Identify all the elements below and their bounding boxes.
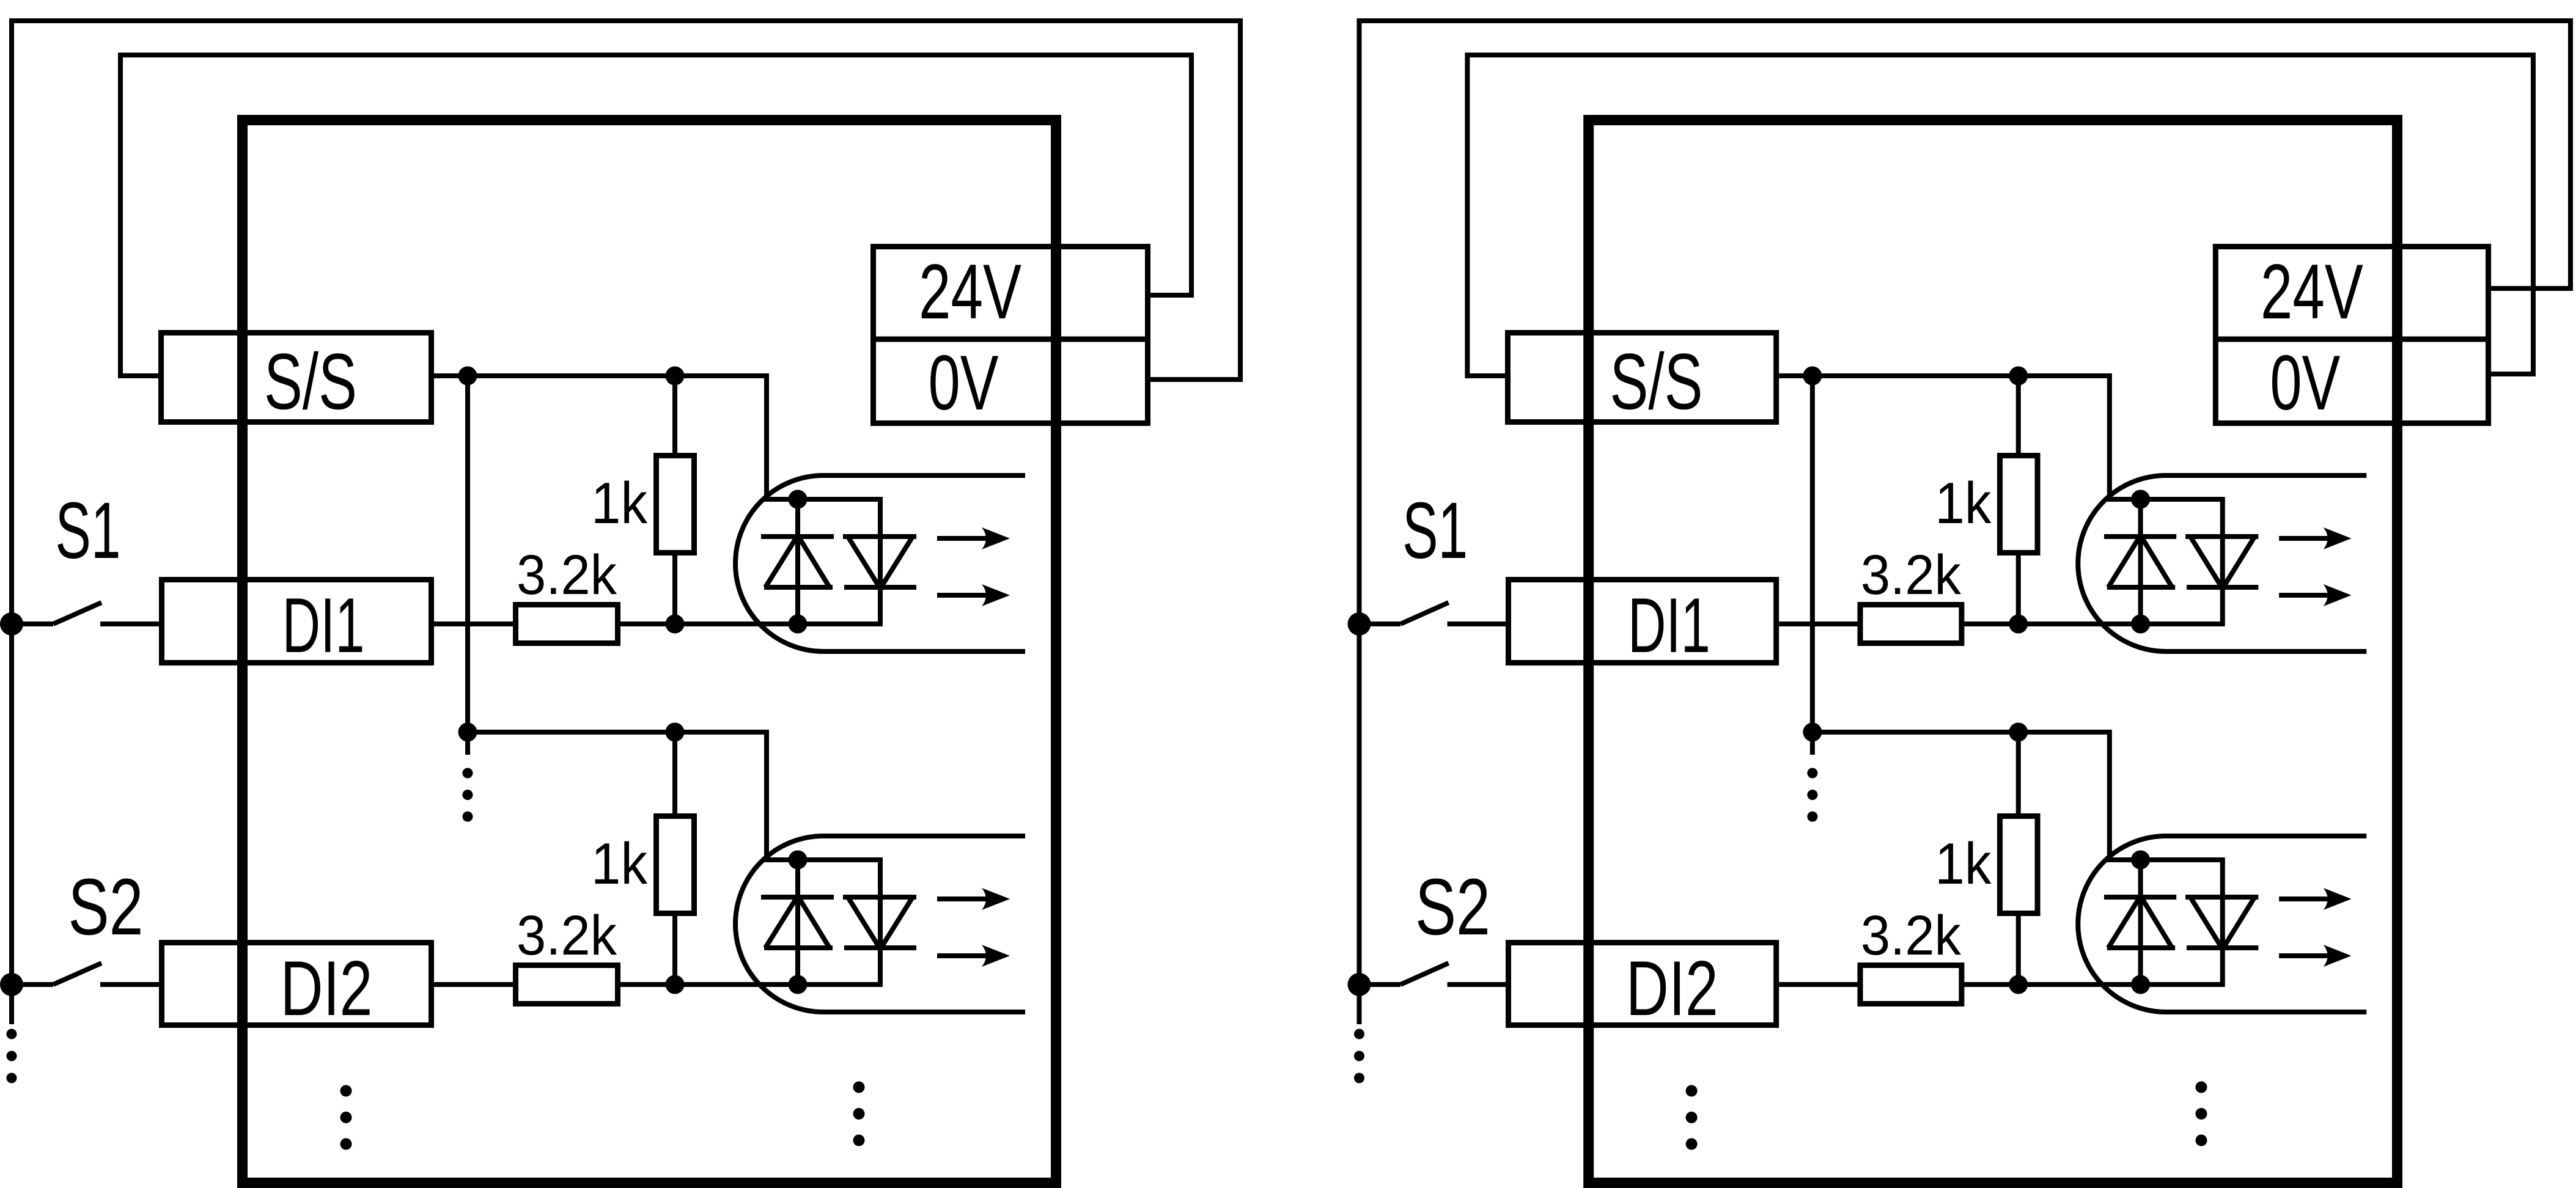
- resistor R1 1k: [657, 376, 694, 624]
- node: LED top pin: [2131, 851, 2150, 870]
- resistor R8 3.2k: [1860, 966, 1962, 1004]
- svg-text:S2: S2: [68, 862, 144, 952]
- node: switch common junction: [1348, 612, 1371, 636]
- light output arrow 2: [937, 953, 989, 958]
- node: rail junction to 1k: [2009, 367, 2028, 386]
- svg-text:DI2: DI2: [1626, 945, 1718, 1032]
- wire: S/S supply loop: [1467, 55, 2533, 376]
- wire: DI input line: [434, 621, 513, 626]
- resistor R2 3.2k: [516, 605, 618, 643]
- svg-text:DI1: DI1: [282, 582, 365, 669]
- node: switch common junction: [1348, 973, 1371, 996]
- wire: S/S drop to channel 2, stub below: [465, 376, 470, 755]
- svg-text:1k: 1k: [1935, 831, 1992, 897]
- resistor R7 1k: [2000, 732, 2038, 985]
- svg-text:S2: S2: [1415, 862, 1490, 952]
- resistor R6 3.2k: [1860, 605, 1962, 643]
- node: LED bottom pin: [2131, 975, 2150, 994]
- node: LED top pin: [789, 490, 808, 509]
- continuation dots below optocouplers: [2196, 1082, 2207, 1093]
- node: junction 1k/3.2k: [666, 615, 685, 634]
- node: LED bottom pin: [2131, 615, 2150, 634]
- resistor R5 1k: [2000, 376, 2038, 624]
- wire: DI input line after 3.2k: [1964, 621, 2140, 626]
- node: rail left junction: [458, 723, 477, 742]
- node: switch common junction: [0, 973, 23, 996]
- wire: S/S supply loop: [120, 55, 1191, 376]
- terminal block 24V/0V: [874, 247, 1148, 424]
- wire: switch-common supply loop: [1360, 21, 2571, 1024]
- terminal divider: [2215, 337, 2489, 342]
- LED D1b (conducts down): [843, 499, 916, 624]
- wire: DI input line: [1779, 982, 1857, 987]
- wire: DI input line after 3.2k: [1964, 982, 2140, 987]
- switch S1: [1360, 603, 1506, 624]
- light output arrow 1: [937, 897, 989, 901]
- wire: DI input line after 3.2k: [620, 621, 798, 626]
- switch S2: [1360, 963, 1506, 985]
- svg-text:3.2k: 3.2k: [517, 904, 617, 967]
- LED D4b (conducts down): [2185, 860, 2258, 985]
- wire: S/S distribution rail with drop to optocoupler: [1779, 376, 2110, 499]
- light output arrow 2: [2279, 593, 2331, 598]
- resistor R3 1k: [657, 732, 694, 985]
- svg-text:1k: 1k: [1935, 471, 1992, 536]
- light output arrow 1: [2279, 897, 2331, 901]
- continuation dots below switch common: [1354, 1029, 1364, 1039]
- light output arrow 1: [2279, 536, 2331, 541]
- svg-text:DI2: DI2: [281, 945, 373, 1032]
- LED D2a (conducts up): [761, 860, 834, 985]
- wire: LED bottom rail: [2141, 982, 2225, 987]
- node: LED bottom pin: [789, 615, 808, 634]
- wire: DI input line: [1779, 621, 1857, 626]
- continuation dots below switch common: [7, 1029, 17, 1039]
- svg-text:3.2k: 3.2k: [1861, 544, 1962, 606]
- resistor R4 3.2k: [516, 966, 618, 1004]
- wire: S/S distribution rail with drop to optocoupler: [468, 732, 767, 860]
- node: junction 1k/3.2k: [2009, 975, 2028, 994]
- LED D2b (conducts down): [843, 860, 916, 985]
- LED D4a (conducts up): [2104, 860, 2176, 985]
- svg-text:1k: 1k: [591, 471, 648, 536]
- wire: LED bottom rail: [2141, 621, 2225, 626]
- light output arrow 2: [937, 593, 989, 598]
- node: rail left junction: [458, 367, 477, 386]
- terminal block 24V/0V: [2215, 247, 2488, 424]
- wire: LED top rail: [764, 857, 883, 862]
- LED D3b (conducts down): [2185, 499, 2258, 624]
- wire: DI input line after 3.2k: [620, 982, 798, 987]
- node: LED top pin: [2131, 490, 2150, 509]
- svg-text:24V: 24V: [919, 248, 1021, 335]
- wire: DI input line: [434, 982, 513, 987]
- svg-text:S1: S1: [1402, 485, 1468, 575]
- optocoupler U2 envelope: [735, 836, 1025, 1012]
- continuation dots below channel-2 rail: [463, 768, 473, 779]
- svg-text:S1: S1: [56, 485, 121, 575]
- wire: LED top rail: [2107, 857, 2225, 862]
- optocoupler U1 envelope: [735, 475, 1025, 651]
- svg-text:24V: 24V: [2261, 248, 2363, 335]
- module A boundary: [243, 120, 1056, 1183]
- wire: switch-common supply loop: [12, 21, 1240, 1024]
- continuation dots below channel-2 rail: [1807, 768, 1817, 779]
- node: junction 1k/3.2k: [2009, 615, 2028, 634]
- terminal DI2: [1509, 943, 1776, 1025]
- svg-text:S/S: S/S: [264, 337, 357, 426]
- terminal S/S: [161, 333, 432, 422]
- light output arrow 1: [937, 536, 989, 541]
- wire: S/S distribution rail with drop to optocoupler: [434, 376, 767, 499]
- module B boundary: [1589, 120, 2398, 1183]
- optocoupler U3 envelope: [2078, 475, 2366, 651]
- wire: LED top rail: [764, 497, 883, 502]
- node: LED top pin: [789, 851, 808, 870]
- continuation dots below DI2 (more inputs): [340, 1085, 352, 1097]
- terminal DI2: [162, 943, 432, 1025]
- terminal divider: [873, 337, 1148, 342]
- wire: LED top rail: [2107, 497, 2225, 502]
- wire: LED bottom rail: [798, 621, 883, 626]
- svg-text:3.2k: 3.2k: [517, 544, 617, 606]
- node: rail junction to 1k: [666, 367, 685, 386]
- terminal S/S: [1508, 333, 1776, 422]
- wire: S/S distribution rail with drop to optocoupler: [1812, 732, 2110, 860]
- svg-text:3.2k: 3.2k: [1861, 904, 1962, 967]
- wire: S/S drop to channel 2, stub below: [1810, 376, 1815, 755]
- node: rail left junction: [1803, 367, 1822, 386]
- continuation dots below optocouplers: [853, 1082, 865, 1093]
- svg-text:S/S: S/S: [1610, 337, 1703, 426]
- LED D3a (conducts up): [2104, 499, 2176, 624]
- node: rail junction to 1k: [2009, 723, 2028, 742]
- node: switch common junction: [0, 612, 23, 636]
- svg-text:DI1: DI1: [1628, 582, 1710, 669]
- node: LED bottom pin: [789, 975, 808, 994]
- optocoupler U4 envelope: [2078, 836, 2366, 1012]
- switch S2: [12, 963, 159, 985]
- terminal DI1: [162, 580, 432, 663]
- light output arrow 2: [2279, 953, 2331, 958]
- switch S1: [12, 603, 159, 624]
- terminal DI1: [1509, 580, 1776, 663]
- node: junction 1k/3.2k: [666, 975, 685, 994]
- svg-text:0V: 0V: [929, 339, 999, 426]
- node: rail junction to 1k: [666, 723, 685, 742]
- continuation dots below DI2 (more inputs): [1686, 1085, 1698, 1097]
- svg-text:1k: 1k: [591, 831, 648, 897]
- node: rail left junction: [1803, 723, 1822, 742]
- LED D1a (conducts up): [761, 499, 834, 624]
- wire: LED bottom rail: [798, 982, 883, 987]
- svg-text:0V: 0V: [2270, 339, 2340, 426]
